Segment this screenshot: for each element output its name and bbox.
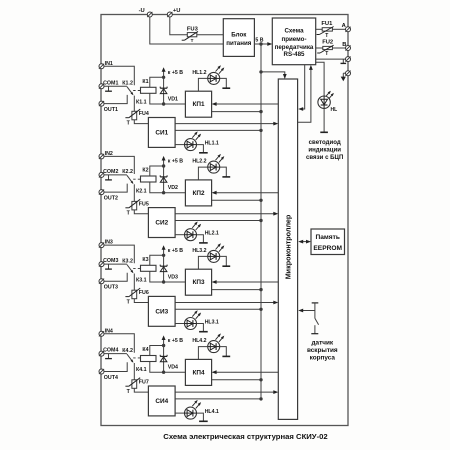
- svg-text:к +5 В: к +5 В: [168, 70, 183, 76]
- terminal chassis: [346, 71, 351, 76]
- ground of LED HL: [320, 131, 328, 133]
- wire LED HL4.1 to ground: [197, 413, 204, 421]
- wire contact to fuse FU7: [133, 363, 135, 380]
- terminal signal ground: [346, 57, 351, 62]
- junction СИ2 bus: [259, 219, 262, 222]
- ground of HL4.1: [199, 420, 208, 422]
- wire FU5 to СИ2: [134, 210, 148, 214]
- junction 5V bus: [259, 42, 262, 45]
- terminal B: [346, 46, 351, 51]
- svg-text:Т: Т: [325, 51, 328, 57]
- svg-text:связи с БЦП: связи с БЦП: [306, 154, 343, 161]
- wire MC to RS-485: [298, 68, 311, 122]
- wire coil K3 to КП3: [150, 271, 186, 282]
- wire RS-485 to fuse FU1: [316, 28, 323, 30]
- junction СИ1 bus: [259, 129, 262, 132]
- svg-text:К1: К1: [142, 79, 148, 85]
- LED HL3.1: [185, 318, 197, 330]
- block СИ4: [148, 386, 175, 416]
- svg-text:5 В: 5 В: [255, 38, 263, 44]
- wire LED HL1.2 to КП1: [198, 78, 207, 91]
- terminal IN3: [99, 243, 104, 248]
- svg-text:OUT1: OUT1: [104, 107, 118, 113]
- signal ground symbol: [342, 59, 344, 63]
- wire RS-485 gnd to terminal 3: [316, 58, 346, 60]
- fuse FU4: [132, 111, 137, 120]
- changeover contact K4.2 blade: [127, 354, 133, 362]
- svg-text:OUT3: OUT3: [104, 285, 118, 291]
- LED HL4.1: [185, 407, 197, 419]
- svg-text:СИ3: СИ3: [155, 308, 168, 315]
- junction +5V node ch4: [162, 344, 165, 347]
- block СИ1: [148, 118, 175, 148]
- terminal IN2: [99, 154, 104, 159]
- svg-text:HL1.1: HL1.1: [205, 140, 219, 146]
- wire coil K4 to КП4: [150, 362, 186, 373]
- svg-text:Память: Память: [315, 234, 339, 241]
- wire MC to КП2: [215, 192, 278, 194]
- wire СИ1 to MC: [175, 123, 275, 125]
- junction СИ3 bus: [259, 308, 262, 311]
- ground of HL1.1: [199, 152, 208, 154]
- svg-text:HL3.2: HL3.2: [192, 248, 206, 254]
- svg-text:COM2: COM2: [103, 169, 118, 175]
- terminal OUT1: [99, 101, 104, 106]
- RS-485 transceiver block (Схема приемо-передатчика RS-485): [272, 18, 315, 65]
- wire СИ4 to MC: [175, 391, 275, 393]
- svg-text:FU7: FU7: [139, 380, 149, 386]
- ground of HL1.2: [222, 87, 230, 89]
- wire СИ3 to MC: [175, 302, 275, 304]
- junction КП3 bus: [259, 288, 262, 291]
- wire coil K4 to +5V: [150, 346, 164, 356]
- wire СИ2 to +5V bus: [175, 220, 261, 222]
- common symbol under COM4: [108, 354, 110, 359]
- mechanical link K2: [133, 178, 140, 180]
- svg-text:FU1: FU1: [321, 21, 333, 27]
- wire IN1 to contact: [104, 66, 134, 85]
- wire LED HL to ground: [323, 108, 325, 131]
- changeover contact K1.2 blade: [127, 87, 133, 95]
- svg-text:К4.2: К4.2: [122, 348, 133, 354]
- wire RS-485 to fuse FU2: [316, 47, 323, 49]
- svg-text:питания: питания: [226, 40, 252, 47]
- wire СИ1 to LED HL1.1: [175, 144, 184, 146]
- wire LED HL2.2 to ground: [220, 167, 227, 177]
- ground of HL2.2: [222, 176, 230, 178]
- terminal COM4: [99, 351, 104, 356]
- svg-text:FU4: FU4: [139, 111, 149, 117]
- svg-text:B: B: [342, 42, 346, 48]
- svg-text:VD3: VD3: [168, 274, 178, 280]
- svg-text:вскрытия: вскрытия: [307, 347, 338, 354]
- wire КП2 to +5V bus: [212, 199, 261, 201]
- wire СИ3 to +5V bus: [175, 308, 261, 310]
- svg-text:К2: К2: [142, 168, 148, 174]
- LED HL2.1: [185, 229, 197, 241]
- wire coil K1 to КП1: [150, 93, 186, 104]
- fuse FU5: [132, 201, 137, 210]
- wire terminal chassis: [343, 72, 345, 74]
- terminal +U: [167, 12, 172, 17]
- svg-text:К2.1: К2.1: [136, 188, 147, 194]
- svg-text:к +5 В: к +5 В: [168, 338, 183, 344]
- svg-text:Микроконтроллер: Микроконтроллер: [284, 214, 293, 279]
- +5V arrow ch3: [163, 248, 165, 255]
- wire coil K2 to КП2: [150, 182, 186, 193]
- wire MC to КП4: [215, 371, 278, 373]
- svg-text:КП3: КП3: [192, 279, 204, 286]
- wire FU4 to СИ1: [134, 120, 148, 124]
- svg-text:датчик: датчик: [312, 339, 334, 346]
- wire COM1: [104, 85, 127, 87]
- svg-text:OUT4: OUT4: [104, 375, 118, 381]
- wire COM3: [104, 263, 127, 265]
- changeover contact K3.2 blade: [127, 265, 133, 273]
- wire LED HL3.2 to КП3: [198, 256, 207, 269]
- common symbol under COM3: [108, 264, 110, 269]
- fuse FU2: [323, 46, 333, 49]
- +5V arrow ch4: [163, 339, 165, 346]
- svg-text:HL4.2: HL4.2: [192, 338, 206, 344]
- svg-text:КП2: КП2: [192, 190, 204, 197]
- LED HL (link indicator): [318, 96, 330, 108]
- svg-text:HL2.2: HL2.2: [192, 159, 206, 165]
- wire LED HL1.1 to ground: [197, 145, 204, 153]
- svg-text:СИ1: СИ1: [155, 129, 168, 136]
- wire contact to fuse FU4: [133, 96, 135, 112]
- wire coil K1 to +5V: [150, 77, 164, 87]
- junction +5V node ch2: [162, 164, 165, 167]
- svg-text:FU3: FU3: [187, 27, 199, 33]
- fuse FU1: [322, 28, 332, 31]
- junction diode bottom ch3: [162, 280, 165, 283]
- wire LED HL4.2 to КП4: [198, 347, 207, 360]
- svg-text:OUT2: OUT2: [104, 196, 118, 202]
- chassis ground arrow: [342, 73, 344, 77]
- wire КП3 to +5V bus: [212, 289, 261, 291]
- diode VD3: [163, 255, 165, 282]
- wire contact to fuse FU5: [133, 184, 135, 201]
- wire LED HL3.2 to ground: [220, 256, 227, 266]
- svg-text:К3: К3: [142, 257, 148, 263]
- svg-text:корпуса: корпуса: [310, 355, 336, 362]
- wire СИ2 to LED HL2.1: [175, 234, 184, 236]
- mechanical link K4: [133, 357, 140, 359]
- LED HL4.2: [208, 341, 220, 353]
- svg-text:HL: HL: [331, 107, 338, 113]
- svg-text:К1.2: К1.2: [122, 81, 133, 87]
- svg-text:К4: К4: [142, 347, 148, 353]
- diode VD2: [163, 166, 165, 193]
- common symbol under COM2: [108, 175, 110, 180]
- svg-text:+U: +U: [173, 8, 181, 14]
- svg-text:HL3.1: HL3.1: [205, 319, 219, 325]
- wire СИ4 to LED HL4.1: [175, 412, 184, 414]
- terminal A: [346, 27, 351, 32]
- wire tamper switch to MC: [302, 310, 315, 312]
- wire +U to fuse FU3: [170, 17, 188, 35]
- svg-text:HL1.2: HL1.2: [192, 70, 206, 76]
- wire FU6 to СИ3: [134, 299, 148, 303]
- outer frame of device: [101, 15, 348, 426]
- wire OUT3 to contact: [104, 273, 127, 281]
- wire MC to КП1: [215, 103, 278, 105]
- ground of HL4.2: [222, 355, 230, 357]
- block КП2: [185, 180, 211, 206]
- LED HL1.1: [185, 139, 197, 151]
- svg-text:HL4.1: HL4.1: [205, 409, 219, 415]
- svg-text:COM3: COM3: [103, 258, 118, 264]
- wire СИ2 to MC: [175, 213, 275, 215]
- wire coil K3 to +5V: [150, 255, 164, 265]
- svg-text:КП4: КП4: [192, 369, 204, 376]
- wire FU7 to СИ4: [134, 388, 148, 392]
- relay coil K2: [141, 176, 157, 182]
- mechanical link K1: [133, 90, 140, 92]
- block СИ3: [148, 296, 175, 326]
- ground of HL3.1: [199, 331, 208, 333]
- svg-text:-U: -U: [139, 8, 145, 14]
- wire MC to КП3: [215, 281, 278, 283]
- wire IN2 to contact: [104, 156, 134, 174]
- wire OUT4 to contact: [104, 362, 127, 371]
- svg-text:Схема электрическая структурна: Схема электрическая структурная СКИУ-02: [163, 432, 327, 441]
- svg-text:EEPROM: EEPROM: [313, 245, 342, 252]
- svg-text:КП1: КП1: [192, 101, 204, 108]
- svg-text:светодиод: светодиод: [309, 139, 341, 146]
- svg-text:VD2: VD2: [168, 185, 178, 191]
- junction +5V node ch3: [162, 254, 165, 257]
- svg-text:COM4: COM4: [103, 348, 118, 354]
- svg-text:HL2.1: HL2.1: [205, 231, 219, 237]
- svg-text:VD4: VD4: [168, 365, 178, 371]
- wire КП1 to +5V bus: [212, 111, 261, 113]
- svg-text:индикации: индикации: [308, 146, 341, 153]
- microcontroller block (Микроконтроллер): [278, 79, 297, 419]
- junction diode bottom ch2: [162, 191, 165, 194]
- svg-text:приемо-: приемо-: [281, 36, 306, 43]
- junction СИ4 bus: [259, 397, 262, 400]
- svg-text:К4.1: К4.1: [136, 367, 147, 373]
- terminal OUT2: [99, 190, 104, 195]
- svg-text:Блок: Блок: [231, 31, 247, 38]
- common symbol under COM1: [108, 86, 110, 91]
- ground of HL2.1: [199, 242, 208, 244]
- junction КП2 bus: [259, 199, 262, 202]
- wire IN4 to contact: [104, 334, 134, 353]
- relay coil K3: [141, 265, 157, 271]
- wire LED HL2.1 to ground: [197, 235, 204, 243]
- fuse FU6: [132, 290, 137, 299]
- junction diode bottom ch4: [162, 371, 165, 374]
- svg-text:FU5: FU5: [139, 201, 149, 207]
- terminal OUT4: [99, 369, 104, 374]
- power supply block (Блок питания): [223, 19, 254, 57]
- fuse FU3: [187, 33, 197, 37]
- wire OUT1 to contact: [104, 95, 127, 104]
- wire КП4 to +5V bus: [212, 379, 261, 381]
- relay coil K1: [141, 87, 157, 93]
- ground of HL3.2: [222, 265, 230, 267]
- terminal -U: [147, 12, 152, 17]
- block КП4: [185, 359, 211, 385]
- svg-text:СИ4: СИ4: [155, 398, 168, 405]
- terminal COM1: [99, 84, 104, 89]
- svg-text:FU6: FU6: [139, 290, 149, 296]
- svg-text:К1.1: К1.1: [136, 100, 147, 106]
- block КП3: [185, 269, 211, 295]
- +5V arrow ch2: [163, 159, 165, 166]
- wire FU1 to terminal A: [332, 28, 345, 30]
- mechanical link K3: [133, 267, 140, 269]
- svg-text:COM1: COM1: [103, 80, 118, 86]
- wire coil K2 to +5V: [150, 166, 164, 176]
- junction +5V node ch1: [162, 76, 165, 79]
- terminal IN4: [99, 331, 104, 336]
- LED HL1.2: [208, 72, 220, 84]
- wire -U to power block: [150, 17, 224, 44]
- wire RS-485 to MC: [302, 65, 305, 109]
- wire IN3 to contact: [104, 245, 134, 263]
- svg-text:FU2: FU2: [322, 40, 333, 46]
- svg-text:СИ2: СИ2: [155, 220, 168, 227]
- tamper switch (датчик вскрытия корпуса): [312, 302, 319, 304]
- relay coil K4: [141, 356, 157, 362]
- svg-text:Т: Т: [191, 38, 194, 43]
- block СИ2: [148, 208, 175, 238]
- wire bus to MC top: [261, 72, 285, 76]
- svg-text:К2.2: К2.2: [122, 169, 133, 175]
- junction bus top: [259, 70, 262, 73]
- +5V bus vertical wire: [260, 44, 262, 399]
- memory block (Память EEPROM): [311, 229, 345, 255]
- wire COM4: [104, 353, 127, 355]
- wire СИ1 to +5V bus: [175, 129, 261, 131]
- svg-text:К3.1: К3.1: [136, 278, 147, 284]
- LED HL2.2: [208, 161, 220, 173]
- wire FU3 to power block: [197, 34, 224, 36]
- terminal COM2: [99, 172, 104, 177]
- wire RS-485 to LED HL: [316, 62, 324, 96]
- wire LED HL3.1 to ground: [197, 324, 204, 332]
- svg-text:VD1: VD1: [168, 96, 178, 102]
- wire COM2: [104, 174, 127, 176]
- svg-text:К3.2: К3.2: [122, 258, 133, 264]
- terminal COM3: [99, 262, 104, 267]
- terminal IN1: [99, 64, 104, 69]
- svg-text:к +5 В: к +5 В: [168, 159, 183, 165]
- wire LED HL1.2 to ground: [220, 78, 227, 88]
- wire FU2 to terminal B: [332, 47, 345, 49]
- svg-text:к +5 В: к +5 В: [168, 248, 183, 254]
- LED HL3.2: [208, 250, 220, 262]
- wire OUT2 to contact: [104, 184, 127, 193]
- diode VD4: [163, 346, 165, 373]
- wire 5V power to RS-485: [254, 43, 271, 45]
- diode VD1: [163, 77, 165, 104]
- svg-text:RS-485: RS-485: [284, 51, 306, 58]
- svg-text:Т: Т: [325, 33, 328, 39]
- svg-text:передатчика: передатчика: [275, 44, 314, 51]
- block КП1: [185, 91, 211, 117]
- junction diode bottom ch1: [162, 102, 165, 105]
- wire LED HL2.2 to КП2: [198, 167, 207, 180]
- wire LED HL4.2 to ground: [220, 347, 227, 357]
- +5V arrow ch1: [163, 70, 165, 77]
- junction КП1 bus: [259, 110, 262, 113]
- terminal OUT3: [99, 279, 104, 284]
- wire СИ3 to LED HL3.1: [175, 323, 184, 325]
- wire contact to fuse FU6: [133, 274, 135, 291]
- wire MC - EEPROM bidirectional: [302, 241, 308, 243]
- junction КП4 bus: [259, 378, 262, 381]
- wire СИ4 to +5V bus: [175, 398, 261, 400]
- fuse FU7: [132, 380, 137, 389]
- svg-text:Схема: Схема: [284, 28, 304, 35]
- changeover contact K2.2 blade: [127, 175, 133, 183]
